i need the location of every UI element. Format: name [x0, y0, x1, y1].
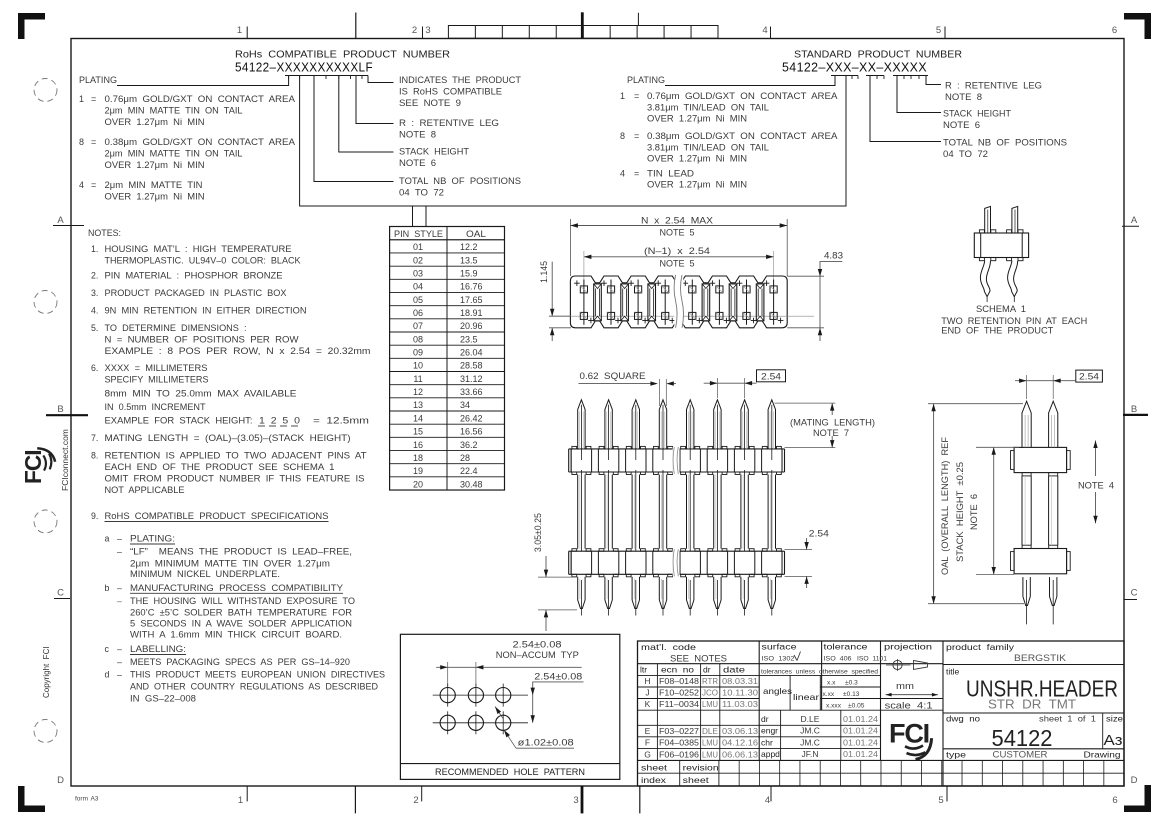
side view pin at 1053.2: [1049, 401, 1058, 447]
svg-text:C: C: [57, 588, 64, 599]
svg-text:dr: dr: [761, 714, 769, 724]
svg-text:PLATING:: PLATING:: [130, 534, 175, 544]
svg-text:PIN STYLE: PIN STYLE: [394, 229, 443, 239]
hole r1c3: [496, 688, 511, 703]
corner mark top-left: [18, 13, 45, 39]
svg-text:3: 3: [573, 795, 578, 806]
front view band 2 (lower insulator): [569, 550, 785, 552]
svg-text:PIN MATERIAL : PHOSPHOR BR: PIN MATERIAL : PHOSPHOR BRONZE: [105, 271, 283, 281]
svg-text:12: 12: [413, 387, 423, 397]
svg-text:01: 01: [413, 242, 423, 252]
svg-text:7.: 7.: [91, 433, 98, 443]
svg-text:dwg no: dwg no: [946, 714, 980, 724]
svg-text:0.76μm GOLD/GXT ON CONTACT: 0.76μm GOLD/GXT ON CONTACT AREA: [647, 91, 838, 101]
svg-text:NOTE 6: NOTE 6: [943, 120, 980, 130]
svg-text:±0.13: ±0.13: [843, 691, 860, 698]
svg-text:5 SECONDS IN A WAVE SOLDE: 5 SECONDS IN A WAVE SOLDER APPLICATION: [130, 618, 352, 628]
svg-text:NOTE 7: NOTE 7: [813, 428, 849, 438]
svg-text:5: 5: [938, 795, 943, 806]
svg-text:28: 28: [460, 453, 470, 463]
svg-text:K: K: [645, 699, 651, 709]
svg-text:STANDARD PRODUCT NUMBER: STANDARD PRODUCT NUMBER: [794, 49, 962, 61]
svg-text:OVER 1.27μm Ni MIN: OVER 1.27μm Ni MIN: [647, 114, 747, 124]
svg-text:±0.3: ±0.3: [845, 680, 858, 687]
svg-text:IS RoHS COMPATIBLE: IS RoHS COMPATIBLE: [399, 87, 502, 97]
svg-text:01.01.24: 01.01.24: [843, 749, 878, 759]
svg-text:260’C ±5’C SOLDER BATH TEM: 260’C ±5’C SOLDER BATH TEMPERATURE FOR: [130, 607, 352, 617]
svg-text:19: 19: [413, 466, 423, 476]
svg-text:x.xx: x.xx: [823, 691, 835, 698]
svg-text:=: =: [91, 94, 96, 104]
svg-text:ecn no: ecn no: [661, 665, 694, 675]
svg-text:11.03.03: 11.03.03: [722, 699, 758, 709]
svg-text:SEE NOTE 9: SEE NOTE 9: [399, 98, 461, 108]
svg-text:FCIconnect.com: FCIconnect.com: [60, 429, 70, 491]
scale cell: [881, 709, 944, 711]
svg-text:2.54: 2.54: [761, 371, 781, 381]
svg-text:9.: 9.: [91, 511, 98, 521]
svg-text:NOTE 5: NOTE 5: [660, 259, 695, 269]
svg-text:ø1.02±0.08: ø1.02±0.08: [518, 738, 574, 748]
svg-text:RETENTION IS APPLIED TO TW: RETENTION IS APPLIED TO TWO ADJACENT PIN…: [105, 451, 368, 461]
svg-text:angles: angles: [763, 686, 792, 696]
svg-text:4: 4: [765, 795, 770, 806]
top view pin squares, centerlines, plus marks: [583, 280, 585, 325]
svg-text:01.01.24: 01.01.24: [843, 726, 878, 736]
svg-text:–: –: [117, 596, 122, 606]
svg-text:0.38μm GOLD/GXT ON CONTACT: 0.38μm GOLD/GXT ON CONTACT AREA: [105, 137, 296, 147]
svg-text:=: =: [91, 137, 96, 147]
svg-text:MEETS PACKAGING SPECS AS P: MEETS PACKAGING SPECS AS PER GS–14–920: [130, 657, 350, 667]
svg-text:OVER 1.27μm Ni MIN: OVER 1.27μm Ni MIN: [647, 180, 747, 190]
svg-text:OVER 1.27μm Ni MIN: OVER 1.27μm Ni MIN: [105, 160, 205, 170]
svg-text:NON–ACCUM TYP: NON–ACCUM TYP: [496, 650, 579, 660]
svg-text:2: 2: [412, 25, 417, 36]
svg-text:04 TO 72: 04 TO 72: [943, 149, 988, 159]
svg-text:= 12.5mm: = 12.5mm: [313, 416, 369, 426]
hole r2c1: [440, 715, 455, 730]
svg-text:ltr: ltr: [640, 665, 647, 675]
side view pin at 1026.6: [1022, 401, 1031, 447]
schema pin at x=987.6: [985, 206, 991, 233]
svg-text:Copyright FCI: Copyright FCI: [42, 646, 51, 698]
hole r1c1: [440, 688, 455, 703]
holes 2x3: [433, 694, 528, 696]
front view pin 7: [741, 400, 748, 449]
svg-text:STACK HEIGHT: STACK HEIGHT: [399, 147, 470, 157]
svg-text:XXXX = MILLIMETERS: XXXX = MILLIMETERS: [105, 363, 208, 373]
svg-text:MANUFACTURING PROCESS COMPAT: MANUFACTURING PROCESS COMPATIBILITY: [130, 583, 343, 593]
svg-text:9N MIN RETENTION IN EITHER: 9N MIN RETENTION IN EITHER DIRECTION: [105, 306, 307, 316]
svg-text:R : RETENTIVE LEG: R : RETENTIVE LEG: [945, 81, 1042, 91]
svg-text:EXAMPLE FOR STACK HEIGHT:: EXAMPLE FOR STACK HEIGHT:: [105, 416, 253, 426]
callout: stack height right: [897, 76, 941, 113]
svg-text:06.06.13: 06.06.13: [722, 749, 758, 759]
svg-text:15: 15: [413, 427, 423, 437]
svg-text:F: F: [645, 738, 650, 748]
svg-text:17.65: 17.65: [460, 295, 483, 305]
svg-text:F11–0034: F11–0034: [659, 699, 699, 709]
svg-text:16: 16: [413, 440, 423, 450]
svg-text:–: –: [117, 657, 122, 667]
svg-text:N x 2.54 MAX: N x 2.54 MAX: [641, 216, 713, 226]
svg-text:engr: engr: [761, 726, 778, 736]
svg-text:WITH A 1.6mm MIN THICK CI: WITH A 1.6mm MIN THICK CIRCUIT BOARD.: [130, 629, 342, 639]
svg-text:INDICATES THE PRODUCT: INDICATES THE PRODUCT: [399, 75, 522, 85]
svg-text:33.66: 33.66: [460, 387, 483, 397]
svg-text:D.LE: D.LE: [801, 714, 820, 724]
FCI logo title block: [889, 719, 932, 760]
drops to pin style table: [412, 206, 414, 227]
side view band 2: [1014, 549, 1067, 574]
svg-text:NOTE 6: NOTE 6: [969, 494, 979, 530]
schema 1 retention pin figure: [974, 233, 1028, 258]
svg-text:04: 04: [413, 282, 423, 292]
front view dim 2.54 (boxed): [757, 370, 786, 382]
svg-text:13: 13: [413, 400, 423, 410]
svg-text:RoHs COMPATIBLE PRODUCT NUM: RoHs COMPATIBLE PRODUCT NUMBER: [235, 49, 450, 61]
svg-text:2μm MIN MATTE TIN: 2μm MIN MATTE TIN: [105, 180, 203, 190]
svg-text:30.48: 30.48: [460, 479, 483, 489]
svg-text:TOTAL NB OF POSITIONS: TOTAL NB OF POSITIONS: [943, 138, 1067, 148]
svg-text:=: =: [634, 91, 639, 101]
svg-text:18.91: 18.91: [460, 308, 483, 318]
svg-text:54122–XXXXXXXXXXLF: 54122–XXXXXXXXXXLF: [235, 61, 373, 75]
svg-text:F10–0252: F10–0252: [659, 688, 699, 698]
svg-text:3.05±0.25: 3.05±0.25: [533, 513, 543, 552]
svg-text:8: 8: [620, 131, 625, 141]
svg-text:STACK HEIGHT: STACK HEIGHT: [943, 109, 1012, 119]
svg-text:B: B: [57, 404, 63, 415]
svg-text:ISO 1101: ISO 1101: [857, 656, 887, 663]
side view 2.54 dim (boxed): [1076, 370, 1103, 382]
svg-text:EXAMPLE : 8 POS PER ROW,: EXAMPLE : 8 POS PER ROW, N x 2.54 = 20.3…: [105, 346, 371, 356]
svg-text:MATING LENGTH = (OAL)–(3.05: MATING LENGTH = (OAL)–(3.05)–(STACK HEIG…: [105, 433, 351, 443]
callout: stack height left: [339, 76, 394, 153]
svg-text:02: 02: [413, 255, 423, 265]
svg-text:2: 2: [413, 795, 418, 806]
svg-text:31.12: 31.12: [460, 374, 483, 384]
svg-text:3.: 3.: [91, 288, 98, 298]
svg-text:LMU: LMU: [702, 738, 718, 748]
svg-text:05: 05: [413, 295, 423, 305]
svg-text:12.2: 12.2: [460, 242, 478, 252]
svg-text:2.54: 2.54: [809, 528, 829, 538]
svg-text:J: J: [645, 688, 649, 698]
callout: indicates RoHS: [368, 76, 394, 83]
svg-text:14: 14: [413, 413, 423, 423]
FCI logo left margin (rotated): [20, 448, 55, 484]
angles/linear cells: [789, 675, 791, 710]
svg-text:date: date: [723, 665, 745, 675]
svg-text:G: G: [644, 749, 651, 759]
svg-text:15.9: 15.9: [460, 269, 478, 279]
svg-text:8mm MIN TO 25.0mm MAX AVA: 8mm MIN TO 25.0mm MAX AVAILABLE: [105, 389, 297, 399]
hole r2c3: [496, 715, 511, 730]
svg-text:OMIT FROM PRODUCT NUMBER I: OMIT FROM PRODUCT NUMBER IF THIS FEATURE…: [105, 474, 365, 484]
svg-text:chr: chr: [761, 737, 773, 747]
svg-text:index: index: [641, 775, 667, 785]
svg-text:6: 6: [1112, 25, 1117, 36]
callout: total nb positions left: [314, 76, 394, 182]
svg-text:F03–0227: F03–0227: [659, 726, 699, 736]
svg-text:b: b: [105, 583, 110, 593]
svg-text:4: 4: [762, 25, 767, 36]
svg-text:LMU: LMU: [702, 699, 718, 709]
svg-text:26.42: 26.42: [460, 413, 483, 423]
svg-text:d: d: [105, 670, 110, 680]
svg-text:ISO 406: ISO 406: [824, 656, 852, 663]
svg-text:type: type: [946, 750, 966, 760]
svg-text:1.145: 1.145: [539, 261, 549, 283]
svg-text:NOTE 8: NOTE 8: [399, 130, 436, 140]
svg-text:5: 5: [936, 25, 941, 36]
svg-text:C: C: [1131, 588, 1138, 599]
svg-text:–: –: [117, 670, 122, 680]
front view pin 4: [659, 400, 666, 449]
svg-text:ISO 1302: ISO 1302: [762, 656, 795, 663]
svg-text:title: title: [946, 667, 960, 677]
corner mark bottom-left: [18, 786, 45, 812]
registration circles left margin: [34, 79, 57, 102]
svg-text:–: –: [117, 534, 122, 544]
svg-text:–: –: [117, 547, 122, 557]
svg-text:11: 11: [413, 374, 422, 384]
svg-text:16.56: 16.56: [460, 427, 483, 437]
svg-text:“LF” MEANS THE PRODUCT I: “LF” MEANS THE PRODUCT IS LEAD–FREE,: [130, 547, 352, 557]
svg-text:x.xxx: x.xxx: [826, 703, 842, 710]
svg-text:07: 07: [413, 321, 423, 331]
svg-text:FCI: FCI: [889, 719, 929, 749]
svg-text:6.: 6.: [91, 363, 98, 373]
svg-text:TIN LEAD: TIN LEAD: [647, 169, 694, 179]
svg-text:03.06.13: 03.06.13: [722, 726, 758, 736]
callout: total nb right: [870, 76, 941, 142]
svg-text:F04–0385: F04–0385: [659, 738, 699, 748]
svg-text:06: 06: [413, 308, 423, 318]
svg-text:10.11.30: 10.11.30: [722, 688, 758, 698]
svg-text:RoHS COMPATIBLE PRODUCT SPE: RoHS COMPATIBLE PRODUCT SPECIFICATIONS: [105, 511, 329, 521]
svg-text:PLATING: PLATING: [627, 75, 665, 85]
svg-text:linear: linear: [793, 692, 819, 702]
svg-text:4.83: 4.83: [824, 251, 843, 261]
front view pin 8: [768, 400, 775, 449]
svg-text:NOTE 5: NOTE 5: [660, 228, 695, 238]
svg-text:IN 0.5mm INCREMENT: IN 0.5mm INCREMENT: [105, 402, 207, 412]
svg-text:NOTE 8: NOTE 8: [945, 92, 982, 102]
type row: [943, 748, 1124, 750]
svg-text:NOTE 6: NOTE 6: [399, 158, 436, 168]
svg-text:OAL: OAL: [466, 229, 486, 239]
svg-text:THERMOPLASTIC. UL94V–0 COLOR: THERMOPLASTIC. UL94V–0 COLOR: BLACK: [105, 256, 301, 266]
svg-text:04.12.16: 04.12.16: [722, 738, 758, 748]
svg-text:3: 3: [425, 25, 430, 36]
svg-text:1: 1: [238, 795, 243, 806]
svg-text:54122–XXX–XX–XXXXX: 54122–XXX–XX–XXXXX: [782, 61, 927, 75]
svg-text:NOTE 4: NOTE 4: [1078, 481, 1114, 491]
front view pin 5: [687, 400, 694, 449]
svg-text:23.5: 23.5: [460, 334, 478, 344]
svg-text:1: 1: [620, 91, 625, 101]
svg-text:LMU: LMU: [702, 749, 718, 759]
svg-text:0.76μm GOLD/GXT ON CONTACT: 0.76μm GOLD/GXT ON CONTACT AREA: [105, 94, 296, 104]
svg-text:NOTES:: NOTES:: [88, 228, 121, 238]
svg-text:A: A: [1131, 215, 1138, 226]
projection symbol: [886, 664, 911, 666]
svg-text:OVER 1.27μm Ni MIN: OVER 1.27μm Ni MIN: [105, 117, 205, 127]
top view break between positions 4-5: [674, 275, 683, 329]
svg-text:F08–0148: F08–0148: [659, 676, 699, 686]
svg-text:±0.05: ±0.05: [848, 703, 865, 710]
top view retention slots: [594, 284, 602, 321]
svg-text:revision: revision: [683, 763, 719, 773]
svg-text:01.01.24: 01.01.24: [843, 737, 878, 747]
top view horizontal centerline: [549, 315, 814, 317]
svg-text:SCHEMA 1: SCHEMA 1: [976, 304, 1026, 314]
title block outline: [638, 641, 1125, 786]
svg-text:1 2 5 0: 1 2 5 0: [259, 416, 300, 426]
svg-text:03: 03: [413, 269, 423, 279]
svg-text:13.5: 13.5: [460, 255, 478, 265]
svg-text:04 TO 72: 04 TO 72: [399, 188, 444, 198]
pin style OAL table: [390, 227, 505, 491]
svg-text:JF.N: JF.N: [802, 749, 819, 759]
svg-text:08: 08: [413, 334, 423, 344]
mm cell: [881, 698, 944, 700]
svg-text:=: =: [91, 180, 96, 190]
svg-text:MINIMUM NICKEL UNDERPLATE.: MINIMUM NICKEL UNDERPLATE.: [130, 569, 280, 579]
svg-text:form A3: form A3: [75, 796, 99, 803]
svg-text:BERGSTIK: BERGSTIK: [1014, 653, 1066, 663]
plating callout line left: [117, 76, 289, 86]
svg-text:Drawing: Drawing: [1084, 750, 1121, 760]
svg-text:sheet 1 of 1: sheet 1 of 1: [1039, 714, 1096, 724]
svg-text:tolerance: tolerance: [824, 642, 868, 652]
svg-text:08.03.31: 08.03.31: [722, 676, 758, 686]
svg-text:54122: 54122: [992, 725, 1053, 751]
hole diameter leader: [504, 730, 516, 748]
svg-text:=: =: [634, 169, 639, 179]
svg-text:20.96: 20.96: [460, 321, 483, 331]
hole pattern right dimension: [533, 682, 584, 723]
svg-text:JM.C: JM.C: [800, 726, 820, 736]
svg-text:N = NUMBER OF POSITIONS P: N = NUMBER OF POSITIONS PER ROW: [105, 335, 300, 345]
svg-text:PLATING: PLATING: [79, 75, 117, 85]
svg-text:appd: appd: [761, 749, 780, 759]
svg-text:2μm MINIMUM MATTE TIN OVER: 2μm MINIMUM MATTE TIN OVER 1.27μm: [130, 558, 330, 568]
svg-text:dr: dr: [703, 665, 711, 675]
svg-text:4.: 4.: [91, 306, 98, 316]
svg-text:PRODUCT PACKAGED IN PLASTIC: PRODUCT PACKAGED IN PLASTIC BOX: [105, 288, 287, 298]
callout: retentive leg right: [926, 76, 941, 85]
svg-text:JM.C: JM.C: [800, 737, 820, 747]
svg-text:CUSTOMER: CUSTOMER: [993, 750, 1048, 760]
revision table: [656, 664, 658, 761]
svg-text:5.: 5.: [91, 323, 98, 333]
svg-text:6: 6: [1112, 795, 1117, 806]
svg-text:OVER 1.27μm Ni MIN: OVER 1.27μm Ni MIN: [105, 192, 205, 202]
svg-text:Aз: Aз: [1104, 732, 1123, 749]
svg-text:0.62 SQUARE: 0.62 SQUARE: [580, 371, 646, 381]
svg-text:FCI: FCI: [20, 450, 46, 484]
svg-text:EACH END OF THE PRODUCT S: EACH END OF THE PRODUCT SEE SCHEMA 1: [105, 462, 335, 472]
plating callout line right: [665, 76, 835, 86]
callout: retentive leg left: [356, 76, 394, 124]
svg-text:2.54±0.08: 2.54±0.08: [513, 639, 562, 649]
front view band 1 (upper insulator): [569, 448, 785, 450]
svg-text:sheet: sheet: [641, 763, 668, 773]
hole pattern box: [400, 634, 619, 779]
svg-text:18: 18: [413, 453, 423, 463]
svg-text:2μm MIN MATTE TIN ON TAIL: 2μm MIN MATTE TIN ON TAIL: [105, 149, 243, 159]
svg-text:3.81μm TIN/LEAD ON TAIL: 3.81μm TIN/LEAD ON TAIL: [647, 103, 769, 113]
svg-text:a: a: [105, 534, 110, 544]
svg-text:2.54±0.08: 2.54±0.08: [534, 671, 582, 681]
svg-text:JCO: JCO: [702, 688, 718, 698]
front view pin 3: [632, 400, 639, 449]
svg-text:END OF THE PRODUCT: END OF THE PRODUCT: [941, 325, 1054, 335]
svg-text:(N–1) x 2.54: (N–1) x 2.54: [644, 246, 710, 256]
svg-text:1.: 1.: [91, 244, 98, 254]
svg-text:tolerances unless otherwise: tolerances unless otherwise specified: [761, 669, 878, 676]
sheet index rows: [638, 759, 1125, 761]
svg-text:1: 1: [79, 94, 84, 104]
side view band 1: [1014, 447, 1067, 472]
svg-text:28.58: 28.58: [460, 361, 483, 371]
front view pin 6: [714, 400, 721, 449]
corner mark top-right: [1124, 13, 1151, 39]
svg-text:surface: surface: [762, 642, 797, 652]
svg-text:16.76: 16.76: [460, 282, 483, 292]
svg-text:OAL (OVERALL LENGTH) REF: OAL (OVERALL LENGTH) REF: [940, 436, 950, 575]
svg-text:scale 4:1: scale 4:1: [885, 700, 933, 710]
svg-text:TOTAL NB OF POSITIONS: TOTAL NB OF POSITIONS: [399, 176, 521, 186]
svg-text:TO DETERMINE DIMENSIONS :: TO DETERMINE DIMENSIONS :: [105, 323, 247, 333]
svg-text:size: size: [1106, 714, 1123, 724]
svg-text:product family: product family: [946, 642, 1015, 652]
svg-text:–: –: [117, 583, 122, 593]
hole pattern top dimension: [436, 666, 582, 668]
callout bracket under product number left: [285, 75, 368, 77]
schema pin at x=1014.8: [1012, 206, 1018, 233]
svg-text:DLE: DLE: [702, 726, 718, 736]
svg-text:3.81μm TIN/LEAD ON TAIL: 3.81μm TIN/LEAD ON TAIL: [647, 143, 769, 153]
svg-text:A: A: [57, 215, 64, 226]
svg-text:TWO RETENTION PIN AT EACH: TWO RETENTION PIN AT EACH: [941, 316, 1087, 326]
svg-text:c: c: [105, 644, 110, 654]
svg-text:=: =: [634, 131, 639, 141]
svg-text:HOUSING MAT’L : HIGH TEMPE: HOUSING MAT’L : HIGH TEMPERATURE: [105, 244, 292, 254]
dwg no row: [943, 712, 1124, 714]
svg-text:(MATING LENGTH): (MATING LENGTH): [790, 417, 875, 427]
svg-text:RTR: RTR: [702, 676, 718, 686]
svg-text:RECOMMENDED HOLE PATTERN: RECOMMENDED HOLE PATTERN: [435, 767, 585, 778]
hole r1c2: [468, 688, 483, 703]
signature rows: [759, 709, 880, 711]
svg-text:AND OTHER COUNTRY REGULATIO: AND OTHER COUNTRY REGULATIONS AS DESCRIB…: [130, 682, 378, 692]
svg-text:22.4: 22.4: [460, 466, 478, 476]
svg-text:36.2: 36.2: [460, 440, 478, 450]
svg-text:STR DR TMT: STR DR TMT: [988, 698, 1076, 712]
svg-text:projection: projection: [884, 642, 932, 652]
svg-text:01.01.24: 01.01.24: [843, 714, 878, 724]
front view pin 2: [605, 400, 612, 449]
svg-text:SEE NOTES: SEE NOTES: [670, 654, 727, 664]
svg-text:OVER 1.27μm Ni MIN: OVER 1.27μm Ni MIN: [647, 154, 747, 164]
svg-text:–: –: [117, 644, 122, 654]
svg-text:2.54: 2.54: [1079, 372, 1099, 382]
svg-text:mm: mm: [896, 681, 914, 691]
